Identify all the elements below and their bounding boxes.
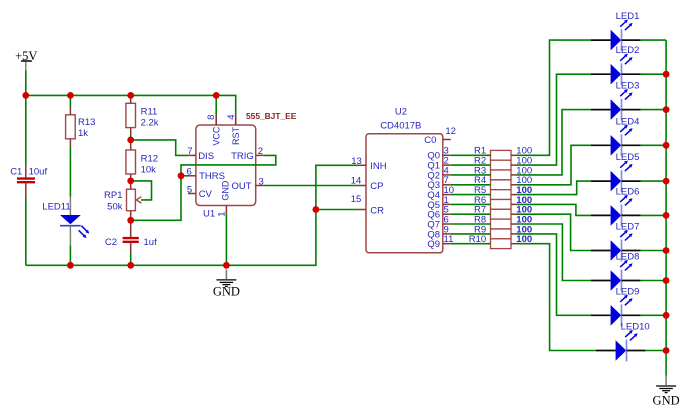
LED8 light arrows — [620, 260, 632, 271]
pin lead RP1 bottom — [130, 211, 132, 221]
resistor R12 body — [126, 150, 136, 174]
junction R12-RP1 node — [127, 178, 134, 185]
resistor R6 body — [491, 200, 512, 210]
svg-text:R11: R11 — [141, 106, 158, 117]
svg-text:RP1: RP1 — [104, 190, 122, 201]
svg-text:LED6: LED6 — [616, 186, 640, 197]
svg-text:10uf: 10uf — [29, 166, 48, 177]
wire R3 to LED3 — [517, 110, 592, 175]
svg-text:U2: U2 — [395, 107, 407, 118]
junction LED4 right rail — [663, 142, 670, 149]
svg-text:VCC: VCC — [211, 126, 221, 146]
svg-text:LED1: LED1 — [616, 11, 640, 22]
LED3 light arrows — [620, 89, 632, 100]
junction R13 branch — [67, 92, 74, 99]
resistor R4 body — [491, 180, 512, 190]
svg-text:7: 7 — [187, 146, 192, 157]
diode LED2 — [591, 63, 641, 85]
wire R1 to LED1 — [517, 40, 592, 155]
svg-text:R10: R10 — [469, 234, 486, 245]
diode LED6 — [591, 205, 641, 227]
junction U1 GND rail — [223, 262, 230, 269]
wire Q6 to R7 — [451, 213, 491, 215]
pin 7 lead DIS — [188, 154, 196, 156]
pin 7 stub Q3 — [443, 184, 451, 186]
svg-text:CP: CP — [370, 181, 383, 192]
resistor R3 body — [491, 170, 512, 180]
wire LED7 to right rail — [641, 250, 667, 252]
wire LED4 to right rail — [641, 144, 667, 146]
svg-text:3: 3 — [259, 176, 264, 187]
wire C1 branch lower — [25, 197, 27, 265]
wire Q0 to R1 — [451, 154, 491, 156]
svg-text:LED3: LED3 — [616, 81, 640, 92]
junction C2 bottom rail — [127, 262, 134, 269]
junction CR node — [313, 206, 320, 213]
resistor R7 body — [491, 209, 512, 219]
pin lead R9 right — [511, 233, 517, 235]
junction LED7 right rail — [663, 247, 670, 254]
LED5 light arrows — [620, 161, 632, 172]
wire +5V down to top rail — [25, 70, 27, 95]
svg-text:LED8: LED8 — [616, 252, 640, 263]
wire C2 to bottom rail — [130, 254, 132, 265]
diode LED3 — [591, 99, 641, 121]
LED9 light arrows — [620, 295, 632, 306]
wire Q5 to R6 — [451, 203, 491, 205]
pin 4 stub Q2 — [443, 174, 451, 176]
pin 3 lead OUT — [256, 185, 264, 187]
pin lead R1 right — [511, 154, 517, 156]
wire R6 to LED6 — [517, 204, 592, 215]
wire R5 to LED5 — [517, 181, 592, 195]
wire Q3 to R4 — [451, 184, 491, 186]
wire Q9 to R10 — [451, 243, 491, 245]
junction LED8 right rail — [663, 277, 670, 284]
diode LED7 — [591, 240, 641, 262]
junction LED5 right rail — [663, 178, 670, 185]
pin lead R3 right — [511, 174, 517, 176]
pin 2 lead TRIG — [256, 154, 264, 156]
junction LED3 right rail — [663, 106, 670, 113]
wire Q4 to R5 — [451, 194, 491, 196]
pin 12 stub C0 — [443, 139, 451, 141]
pin 1 lead U1 GND — [225, 206, 227, 214]
resistor R1 body — [491, 150, 512, 160]
pin 8 lead — [215, 115, 217, 126]
svg-text:LED5: LED5 — [616, 152, 640, 163]
LED11 light arrows — [79, 226, 90, 238]
wire node R11-R12 to DIS pin 7 — [131, 140, 188, 156]
wire R7 to LED7 — [517, 214, 592, 250]
svg-text:U1: U1 — [203, 209, 215, 220]
pin lead R6 right — [511, 203, 517, 205]
LED2 light arrows — [620, 54, 632, 65]
RP1 wiper arrow — [136, 197, 141, 203]
svg-text:LED4: LED4 — [616, 116, 640, 127]
wire Q7 to R8 — [451, 223, 491, 225]
pin 13 lead INH — [358, 164, 366, 166]
wire VCC drop pin 8 — [215, 95, 217, 114]
pin 9 stub Q8 — [443, 233, 451, 235]
wire RP1 bottom to THRS vertical — [131, 155, 276, 220]
resistor R9 body — [491, 229, 512, 239]
resistor R5 body — [491, 190, 512, 200]
junction R11-R12 node — [127, 137, 134, 144]
junction THRS node — [178, 172, 185, 179]
junction +5V / C1 / rail — [22, 92, 29, 99]
op-amp U2 CD4017B body — [366, 134, 443, 253]
ground symbol under U1 — [216, 270, 236, 287]
wire LED9 to right rail — [641, 314, 667, 316]
svg-text:GND: GND — [653, 393, 680, 407]
junction RP1-C2 node — [127, 217, 134, 224]
svg-text:CR: CR — [370, 205, 384, 216]
pin 15 lead CR — [358, 209, 366, 211]
svg-text:GND: GND — [213, 285, 240, 299]
pin 6 stub Q7 — [443, 223, 451, 225]
svg-text:1: 1 — [216, 212, 227, 217]
pin lead R5 right — [511, 194, 517, 196]
diode LED5 — [591, 170, 641, 192]
wire right ground rail — [665, 40, 667, 376]
pin lead R13 top — [69, 107, 71, 115]
diode LED1 — [591, 29, 641, 51]
wire R4 to LED4 — [517, 145, 592, 185]
wire LED10 to right rail — [646, 350, 667, 352]
svg-text:8: 8 — [206, 115, 217, 120]
pin 10 stub Q4 — [443, 194, 451, 196]
wire C1 branch upper — [25, 95, 27, 163]
wire R2 to LED2 — [517, 74, 592, 165]
diode LED4 — [591, 134, 641, 156]
svg-text:LED10: LED10 — [621, 322, 650, 333]
pin lead R2 right — [511, 164, 517, 166]
op-amp U1 555 timer body — [196, 125, 256, 206]
pin 3 stub Q0 — [443, 154, 451, 156]
svg-text:THRS: THRS — [199, 171, 225, 182]
svg-text:C1: C1 — [10, 166, 22, 177]
wire RP1 wiper loop — [131, 181, 152, 200]
resistor R13 body — [66, 115, 76, 139]
svg-text:INH: INH — [370, 161, 387, 172]
svg-text:4: 4 — [226, 115, 237, 120]
pin 6 lead THRS — [188, 175, 196, 177]
LED7 light arrows — [620, 230, 632, 241]
wire OUT to CP — [264, 185, 358, 187]
resistor R11 body — [126, 103, 136, 127]
junction R11 branch — [127, 92, 134, 99]
wire R13 to LED11 — [69, 147, 71, 197]
pin 2 stub Q1 — [443, 164, 451, 166]
svg-text:LED9: LED9 — [616, 286, 640, 297]
svg-text:RST: RST — [231, 126, 241, 145]
diode LED9 — [591, 304, 641, 326]
svg-text:100: 100 — [516, 234, 532, 245]
LED1 light arrows — [620, 20, 632, 31]
svg-text:+5V: +5V — [15, 49, 37, 63]
svg-text:DIS: DIS — [198, 151, 214, 162]
pin lead R8 right — [511, 223, 517, 225]
pin lead R10 right — [511, 243, 517, 245]
svg-text:13: 13 — [351, 156, 362, 167]
wire Q8 to R9 — [451, 233, 491, 235]
pin 1 stub Q5 — [443, 203, 451, 205]
junction VCC pin 8 — [213, 92, 220, 99]
svg-text:14: 14 — [351, 175, 362, 186]
svg-text:6: 6 — [187, 167, 192, 178]
diode LED8 — [591, 270, 641, 292]
svg-text:OUT: OUT — [231, 181, 251, 192]
svg-text:CD4017B: CD4017B — [380, 120, 421, 131]
svg-text:5: 5 — [187, 184, 192, 195]
svg-text:TRIG: TRIG — [231, 151, 254, 162]
LED6 light arrows — [620, 195, 632, 206]
LED10 light arrows — [625, 330, 637, 341]
pin lead R11 top — [130, 95, 132, 103]
svg-text:LED7: LED7 — [616, 222, 640, 233]
wire LED2 to right rail — [641, 73, 667, 75]
wire R11 to R12 — [130, 135, 132, 143]
svg-text:12: 12 — [445, 126, 456, 137]
potentiometer RP1 body — [127, 189, 136, 211]
wire ground to CR — [316, 209, 358, 211]
wire bottom rail to U2 INH — [26, 165, 358, 265]
svg-text:1k: 1k — [78, 128, 88, 139]
svg-text:C2: C2 — [105, 237, 117, 248]
pin lead R4 right — [511, 184, 517, 186]
wire Q1 to R2 — [451, 164, 491, 166]
wire LED6 to right rail — [641, 214, 667, 216]
wire rail to R13 — [69, 95, 71, 107]
ground symbol right — [656, 376, 676, 393]
junction LED6 right rail — [663, 212, 670, 219]
svg-text:LED2: LED2 — [616, 45, 640, 56]
wire LED3 to right rail — [641, 109, 667, 111]
pin lead R12 bottom to RP1 top — [130, 174, 132, 189]
wire LED5 to right rail — [641, 180, 667, 182]
svg-text:LED11: LED11 — [42, 202, 70, 213]
svg-text:50k: 50k — [107, 201, 123, 212]
pin 5 stub Q6 — [443, 213, 451, 215]
svg-text:15: 15 — [351, 194, 362, 205]
wire R9 to LED9 — [517, 234, 592, 315]
resistor R2 body — [491, 160, 512, 170]
svg-text:1uf: 1uf — [144, 237, 158, 248]
wire LED1 to right rail — [641, 39, 667, 41]
svg-text:10k: 10k — [141, 164, 157, 175]
junction LED9 right rail — [663, 312, 670, 319]
pin 11 stub Q9 — [443, 243, 451, 245]
junction LED11 bottom rail — [67, 262, 74, 269]
pin 4 lead — [235, 115, 237, 126]
diode LED11 — [60, 197, 81, 246]
wire LED11 to bottom rail — [69, 245, 71, 265]
resistor R10 body — [491, 239, 512, 249]
svg-text:Q9: Q9 — [427, 239, 440, 250]
wire LED8 to right rail — [641, 280, 667, 282]
pin lead R7 right — [511, 213, 517, 215]
svg-text:C0: C0 — [424, 135, 436, 146]
svg-text:2.2k: 2.2k — [141, 117, 159, 128]
pin lead R13 bottom — [69, 139, 71, 147]
wire Q2 to R3 — [451, 174, 491, 176]
resistor R8 body — [491, 219, 512, 229]
svg-text:CV: CV — [199, 189, 213, 200]
wire R10 to LED10 — [517, 244, 597, 351]
junction LED2 right rail — [663, 71, 670, 78]
junction LED10 right rail — [663, 347, 670, 354]
svg-text:GND: GND — [220, 180, 230, 201]
svg-text:555_BJT_EE: 555_BJT_EE — [246, 111, 297, 121]
pin 14 lead CP — [358, 185, 366, 187]
svg-text:11: 11 — [444, 234, 454, 245]
svg-text:2: 2 — [258, 146, 263, 157]
pin lead R11 bottom — [130, 128, 132, 135]
capacitor C2 — [123, 220, 139, 254]
capacitor C1 — [17, 163, 35, 197]
svg-text:R13: R13 — [78, 117, 95, 128]
svg-text:R12: R12 — [141, 153, 158, 164]
LED4 light arrows — [620, 125, 632, 136]
wire U1 GND pin to bottom rail — [225, 213, 227, 265]
wire top rail — [26, 95, 236, 114]
diode LED10 — [596, 340, 646, 362]
wire R8 to LED8 — [517, 224, 592, 281]
wire THRS stub — [181, 175, 188, 177]
power symbol +5V — [21, 61, 32, 70]
pin lead R12 top — [130, 143, 132, 151]
pin 5 lead CV unconnected — [188, 193, 196, 195]
